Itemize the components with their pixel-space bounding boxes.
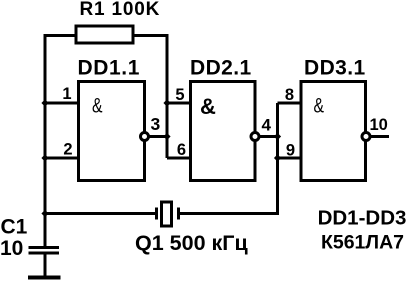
wire feedback vertical to DD2 inputs — [166, 34, 169, 158]
svg-text:R1 100K: R1 100K — [80, 0, 161, 20]
NAND gate DD3.1 body — [301, 82, 366, 181]
svg-text:&: & — [200, 94, 216, 119]
wire DD3 pin 8 input — [278, 102, 302, 105]
junction DD1 pin1 node — [41, 99, 48, 106]
wire DD3 pin 9 input — [278, 157, 302, 160]
junction DD2 output node — [274, 133, 281, 140]
wire R1 left lead — [45, 34, 76, 37]
svg-text:Q1 500 кГц: Q1 500 кГц — [135, 231, 248, 255]
ground — [28, 276, 61, 280]
NAND gate DD2.1 body — [191, 82, 256, 181]
svg-text:DD2.1: DD2.1 — [190, 57, 252, 80]
junction DD2 pin5 node — [163, 99, 170, 106]
svg-text:&: & — [314, 95, 325, 118]
svg-text:10: 10 — [0, 237, 23, 260]
svg-text:DD3.1: DD3.1 — [304, 57, 366, 80]
wire crystal left lead — [45, 212, 155, 215]
capacitor C1 top plate — [29, 246, 60, 249]
wire DD1 pin 2 input — [45, 157, 79, 160]
svg-text:8: 8 — [285, 86, 294, 104]
svg-text:10: 10 — [370, 116, 388, 134]
svg-text:3: 3 — [151, 114, 161, 134]
inversion bubble DD2.1 output — [251, 133, 259, 141]
svg-text:4: 4 — [262, 116, 272, 135]
junction DD1 pin2 node — [41, 154, 48, 161]
wire crystal right lead — [180, 212, 279, 215]
wire DD1 pin 3 output — [149, 135, 168, 138]
svg-text:C1: C1 — [1, 216, 28, 239]
crystal Q1 body — [162, 202, 172, 226]
svg-text:DD1-DD3: DD1-DD3 — [318, 207, 407, 230]
wire DD2 pin 4 output — [259, 135, 278, 138]
svg-text:6: 6 — [177, 141, 186, 159]
crystal Q1 left plate — [155, 208, 158, 220]
wire C1 to ground — [44, 253, 47, 276]
resistor R1 — [76, 26, 133, 43]
svg-text:К561ЛА7: К561ЛА7 — [321, 232, 404, 254]
svg-text:&: & — [92, 95, 103, 118]
wire DD2 pin 6 input — [167, 157, 191, 160]
crystal Q1 right plate — [177, 208, 180, 220]
svg-text:9: 9 — [286, 142, 295, 160]
svg-text:DD1.1: DD1.1 — [78, 57, 141, 80]
inversion bubble DD1.1 output — [141, 133, 149, 141]
op-amp U1: NAND gate DD1.1 body — [79, 82, 145, 181]
wire DD3 pin 10 output — [370, 135, 390, 138]
wire left input rail — [44, 34, 47, 246]
svg-text:1: 1 — [62, 85, 71, 103]
wire DD1 pin 1 input — [45, 102, 79, 105]
wire R1 right lead — [133, 34, 167, 37]
wire DD2 pin 5 input — [167, 102, 191, 105]
capacitor C1 bottom plate — [29, 252, 60, 255]
svg-text:5: 5 — [175, 86, 184, 104]
junction DD1 output node — [163, 133, 170, 140]
junction crystal left node — [41, 210, 48, 217]
inversion bubble DD3.1 output — [362, 133, 370, 141]
wire DD3 input vertical — [276, 103, 279, 214]
svg-text:2: 2 — [63, 141, 72, 159]
junction DD3 pin9 node — [274, 154, 281, 161]
